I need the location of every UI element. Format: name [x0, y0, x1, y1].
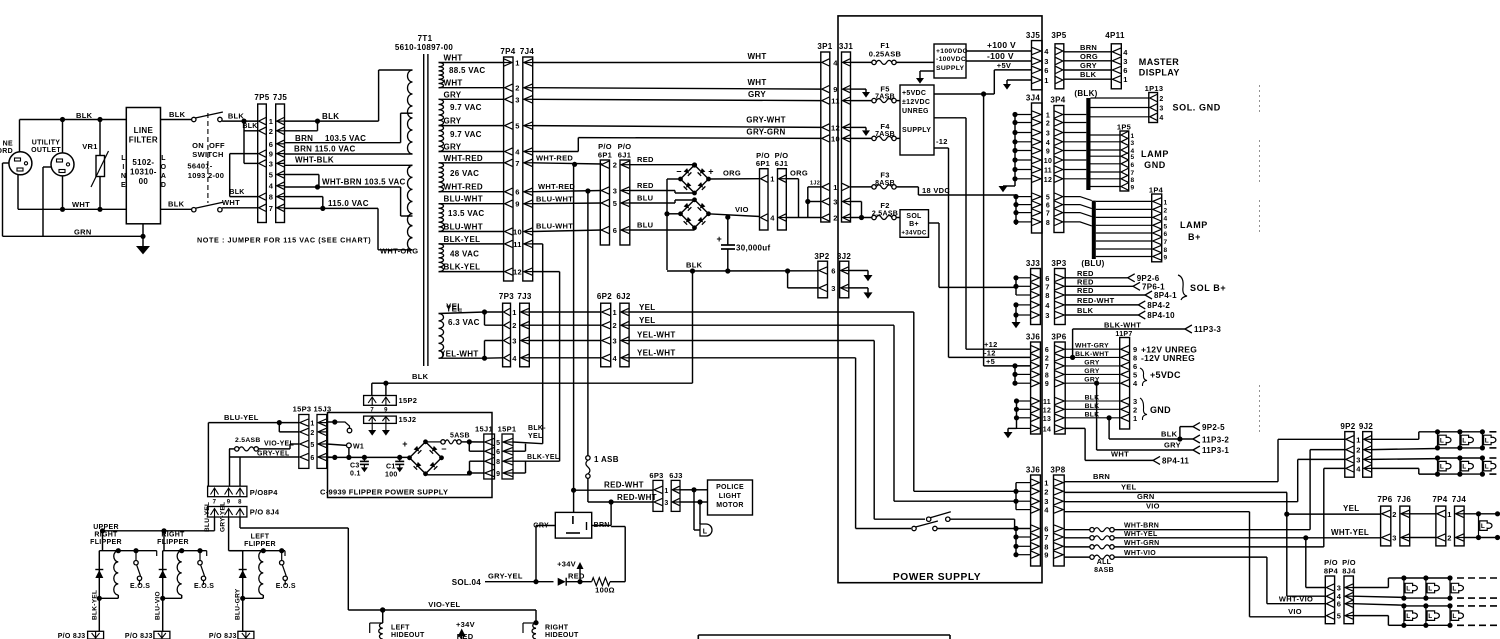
svg-text:GND: GND	[1150, 405, 1171, 415]
svg-text:3P2: 3P2	[814, 252, 829, 261]
svg-text:GRY-YEL: GRY-YEL	[488, 572, 523, 581]
svg-text:BLU: BLU	[637, 194, 653, 203]
svg-text:BLU-GRY: BLU-GRY	[235, 588, 242, 620]
svg-text:4: 4	[269, 182, 274, 191]
svg-text:N: N	[121, 173, 126, 180]
svg-text:5: 5	[310, 442, 314, 449]
svg-text:2: 2	[512, 321, 516, 330]
svg-text:BRN: BRN	[1080, 43, 1097, 52]
svg-text:BLK: BLK	[169, 110, 186, 119]
svg-text:OFF: OFF	[209, 141, 225, 150]
svg-text:7J5: 7J5	[273, 93, 287, 102]
svg-text:26 VAC: 26 VAC	[450, 169, 479, 178]
svg-text:3: 3	[1123, 57, 1127, 66]
svg-text:7: 7	[1046, 211, 1050, 218]
svg-text:UTILITY: UTILITY	[32, 140, 61, 147]
svg-text:VIO: VIO	[1288, 607, 1302, 616]
svg-text:12: 12	[1043, 407, 1051, 414]
svg-text:RED-WHT: RED-WHT	[617, 493, 657, 502]
svg-text:7: 7	[1164, 239, 1168, 246]
svg-text:7P6-1: 7P6-1	[1142, 282, 1165, 291]
svg-text:-12: -12	[936, 137, 948, 146]
svg-text:BLK: BLK	[229, 189, 244, 196]
svg-text:3: 3	[664, 500, 668, 507]
svg-text:WHT-RED: WHT-RED	[538, 182, 575, 191]
svg-text:BLU-YEL: BLU-YEL	[224, 413, 259, 422]
svg-text:F3: F3	[880, 171, 889, 180]
svg-text:B+: B+	[1188, 232, 1201, 242]
svg-text:WHT-BRN 103.5 VAC: WHT-BRN 103.5 VAC	[322, 178, 406, 187]
svg-text:1093 2-00: 1093 2-00	[188, 171, 224, 180]
svg-text:1: 1	[1044, 76, 1048, 85]
svg-text:6: 6	[496, 449, 500, 456]
svg-text:5: 5	[613, 199, 617, 208]
svg-text:1: 1	[1164, 199, 1168, 206]
svg-text:8: 8	[1046, 220, 1050, 227]
svg-text:6P2: 6P2	[597, 292, 612, 301]
svg-text:8P4-1: 8P4-1	[1154, 291, 1177, 300]
svg-text:13: 13	[1043, 416, 1051, 423]
svg-text:GRY: GRY	[1164, 441, 1181, 450]
svg-text:5: 5	[269, 171, 273, 180]
svg-text:7P6: 7P6	[1377, 495, 1392, 504]
svg-text:+5V: +5V	[997, 61, 1011, 70]
svg-text:BLK: BLK	[1077, 306, 1094, 315]
svg-text:BLK: BLK	[76, 111, 93, 120]
svg-text:15J2: 15J2	[399, 415, 417, 424]
svg-text:I: I	[122, 164, 124, 171]
svg-text:4: 4	[1044, 47, 1049, 56]
svg-text:L: L	[1462, 464, 1466, 471]
svg-text:3: 3	[1337, 584, 1341, 593]
svg-text:BLU-YEL: BLU-YEL	[204, 502, 211, 532]
svg-text:2: 2	[1392, 510, 1396, 519]
svg-text:2: 2	[1159, 96, 1163, 103]
svg-text:3J4: 3J4	[1026, 94, 1040, 103]
svg-text:LEFT: LEFT	[251, 534, 270, 541]
svg-text:SUPPLY: SUPPLY	[902, 127, 931, 134]
svg-text:GRY: GRY	[444, 117, 462, 126]
svg-text:L: L	[1406, 585, 1410, 592]
svg-text:FLIPPER: FLIPPER	[244, 541, 276, 548]
svg-text:RED: RED	[1077, 277, 1094, 286]
svg-text:WHT-RED: WHT-RED	[444, 183, 483, 192]
svg-text:7J4: 7J4	[520, 47, 534, 56]
svg-text:WHT: WHT	[444, 54, 463, 63]
svg-text:2: 2	[613, 321, 617, 330]
svg-text:56401-: 56401-	[187, 162, 212, 171]
svg-text:2: 2	[1356, 446, 1360, 455]
svg-text:7: 7	[1045, 364, 1049, 371]
svg-text:1: 1	[515, 59, 519, 68]
svg-text:ORD: ORD	[0, 148, 13, 155]
svg-text:C-9939 FLIPPER POWER SUPPLY: C-9939 FLIPPER POWER SUPPLY	[320, 488, 448, 497]
svg-text:ORG: ORG	[1080, 52, 1098, 61]
svg-text:6P1: 6P1	[756, 159, 770, 168]
svg-text:GRY: GRY	[444, 143, 462, 152]
svg-text:1: 1	[512, 308, 516, 317]
svg-text:10: 10	[1044, 158, 1052, 165]
svg-text:5: 5	[1131, 154, 1135, 161]
svg-text:BLK: BLK	[228, 112, 245, 121]
svg-text:4: 4	[1045, 301, 1050, 310]
svg-text:4: 4	[613, 354, 618, 363]
svg-text:BLU-WHT: BLU-WHT	[536, 222, 573, 231]
svg-text:WHT: WHT	[72, 200, 90, 209]
svg-text:MOTOR: MOTOR	[716, 502, 743, 509]
svg-text:P/O 8J4: P/O 8J4	[250, 508, 280, 517]
svg-text:WHT-GRN: WHT-GRN	[1124, 540, 1160, 547]
svg-text:LAMP: LAMP	[1141, 149, 1169, 159]
svg-text:4P11: 4P11	[1105, 31, 1125, 40]
svg-text:WHT: WHT	[747, 52, 766, 61]
svg-text:3P6: 3P6	[1051, 333, 1066, 342]
svg-text:8P4-2: 8P4-2	[1147, 301, 1170, 310]
svg-text:3J6: 3J6	[1026, 333, 1040, 342]
svg-text:WHT-ORG: WHT-ORG	[380, 247, 418, 256]
svg-text:GRY-YEL: GRY-YEL	[220, 502, 227, 532]
svg-text:48 VAC: 48 VAC	[450, 250, 479, 259]
svg-text:100: 100	[385, 472, 398, 479]
svg-text:GRY-WHT: GRY-WHT	[746, 116, 786, 125]
svg-text:WHT: WHT	[222, 198, 240, 207]
svg-text:LIGHT: LIGHT	[719, 493, 742, 500]
svg-text:1J2: 1J2	[810, 181, 820, 187]
svg-text:LEFT: LEFT	[391, 625, 410, 632]
svg-text:2: 2	[1045, 355, 1049, 362]
svg-text:+: +	[716, 234, 722, 244]
svg-text:8: 8	[269, 193, 273, 202]
svg-text:4: 4	[512, 354, 517, 363]
svg-text:13.5 VAC: 13.5 VAC	[448, 209, 485, 218]
svg-text:BLU: BLU	[637, 221, 653, 230]
svg-text:+34V: +34V	[557, 560, 576, 569]
svg-text:4: 4	[1044, 506, 1049, 515]
svg-text:SOL B+: SOL B+	[1190, 283, 1226, 293]
svg-text:BLK: BLK	[322, 112, 339, 121]
svg-text:BLK: BLK	[412, 372, 429, 381]
svg-text:3J3: 3J3	[1026, 259, 1040, 268]
svg-text:FLIPPER: FLIPPER	[157, 539, 189, 546]
svg-text:D: D	[161, 182, 166, 189]
svg-text:3: 3	[515, 95, 519, 104]
svg-text:L: L	[1440, 437, 1444, 444]
svg-text:VIO: VIO	[735, 205, 749, 214]
svg-text:L: L	[1485, 437, 1489, 444]
svg-text:6: 6	[831, 267, 835, 276]
svg-text:YEL: YEL	[446, 303, 462, 312]
svg-text:8P4-10: 8P4-10	[1147, 311, 1175, 320]
svg-text:BLK-YEL: BLK-YEL	[444, 263, 481, 272]
svg-text:RED: RED	[568, 572, 585, 581]
svg-text:RED: RED	[457, 632, 474, 639]
svg-text:5102-: 5102-	[132, 158, 154, 167]
svg-text:ORG: ORG	[790, 169, 808, 178]
svg-text:3: 3	[269, 159, 273, 168]
svg-text:9: 9	[1046, 149, 1050, 156]
svg-text:11P3-1: 11P3-1	[1202, 446, 1229, 455]
svg-text:1P4: 1P4	[1149, 186, 1164, 195]
svg-text:O: O	[161, 164, 167, 171]
svg-text:4: 4	[1123, 48, 1128, 57]
svg-text:9J2: 9J2	[1359, 422, 1373, 431]
svg-text:7T1: 7T1	[418, 34, 433, 43]
svg-text:9: 9	[1044, 551, 1048, 560]
svg-text:7: 7	[213, 500, 217, 506]
svg-text:VIO: VIO	[1146, 502, 1160, 511]
svg-text:5610-10897-00: 5610-10897-00	[395, 43, 453, 52]
svg-text:BLU-WHT: BLU-WHT	[536, 195, 573, 204]
svg-text:BLK-WHT: BLK-WHT	[1075, 351, 1109, 358]
svg-text:9: 9	[269, 150, 273, 159]
svg-text:6: 6	[310, 455, 314, 462]
svg-text:6: 6	[1164, 231, 1168, 238]
svg-text:6: 6	[1123, 66, 1127, 75]
svg-text:OUTLET: OUTLET	[31, 147, 61, 154]
svg-text:9: 9	[1131, 185, 1135, 192]
svg-text:2: 2	[310, 430, 314, 437]
svg-text:BLK: BLK	[168, 200, 185, 209]
svg-text:9: 9	[1045, 381, 1049, 388]
svg-text:1: 1	[770, 175, 774, 184]
svg-text:3: 3	[1045, 311, 1049, 320]
svg-text:11: 11	[831, 97, 840, 106]
svg-text:1 ASB: 1 ASB	[594, 455, 619, 464]
svg-text:4: 4	[833, 58, 838, 67]
svg-text:2: 2	[515, 84, 519, 93]
svg-text:3: 3	[1046, 131, 1050, 138]
svg-text:E: E	[121, 182, 126, 189]
svg-text:UNREG: UNREG	[902, 108, 929, 115]
svg-text:2: 2	[613, 161, 617, 170]
svg-text:RED: RED	[1077, 286, 1094, 295]
svg-text:1: 1	[833, 183, 837, 192]
svg-text:15J3: 15J3	[314, 405, 332, 414]
svg-text:LINE: LINE	[134, 126, 154, 135]
svg-text:YEL: YEL	[639, 316, 655, 325]
svg-text:1: 1	[1046, 113, 1050, 120]
svg-text:F2: F2	[880, 201, 889, 210]
svg-text:L: L	[1481, 523, 1485, 530]
svg-text:30,000uf: 30,000uf	[736, 244, 770, 253]
svg-text:5: 5	[1164, 223, 1168, 230]
svg-text:00: 00	[139, 177, 149, 186]
svg-text:BLK-YEL: BLK-YEL	[444, 235, 481, 244]
svg-text:6J2: 6J2	[616, 292, 630, 301]
svg-text:1: 1	[1133, 414, 1137, 423]
svg-text:6: 6	[1337, 600, 1341, 609]
svg-text:GRN: GRN	[74, 228, 92, 237]
svg-text:BLU-WHT: BLU-WHT	[444, 223, 483, 232]
svg-text:4: 4	[515, 148, 520, 157]
svg-text:3: 3	[831, 284, 835, 293]
svg-text:6P1: 6P1	[598, 151, 612, 160]
svg-text:1P13: 1P13	[1145, 84, 1164, 93]
svg-text:DISPLAY: DISPLAY	[1139, 68, 1180, 78]
svg-text:L: L	[1485, 464, 1489, 471]
svg-text:+5VDC: +5VDC	[902, 90, 926, 97]
svg-text:2: 2	[1447, 534, 1451, 543]
svg-text:BLU-VIO: BLU-VIO	[155, 591, 162, 620]
svg-text:0.1: 0.1	[350, 471, 361, 478]
svg-text:L: L	[1462, 437, 1466, 444]
svg-text:11P3-2: 11P3-2	[1202, 436, 1229, 445]
svg-text:BLK-WHT: BLK-WHT	[1104, 321, 1141, 330]
svg-text:ON: ON	[192, 141, 204, 150]
svg-text:P/O8P4: P/O8P4	[250, 488, 279, 497]
svg-text:GRY: GRY	[1080, 61, 1097, 70]
svg-text:7J6: 7J6	[1397, 495, 1411, 504]
svg-text:NOTE : JUMPER FOR 115 VAC (SEE: NOTE : JUMPER FOR 115 VAC (SEE CHART)	[197, 236, 371, 245]
svg-text:3J2: 3J2	[837, 252, 851, 261]
svg-text:±12VDC: ±12VDC	[902, 99, 930, 106]
svg-text:8: 8	[1131, 177, 1135, 184]
svg-text:14: 14	[1043, 426, 1051, 433]
svg-text:WHT-VIO: WHT-VIO	[1279, 595, 1313, 604]
svg-text:6: 6	[1045, 347, 1049, 354]
svg-text:8: 8	[1045, 372, 1049, 379]
svg-text:10: 10	[831, 134, 840, 143]
svg-text:8P4: 8P4	[1324, 567, 1339, 576]
svg-text:+5VDC: +5VDC	[1150, 370, 1181, 380]
svg-text:L: L	[1452, 613, 1456, 620]
svg-text:0.25ASB: 0.25ASB	[869, 50, 902, 59]
svg-text:88.5 VAC: 88.5 VAC	[449, 66, 486, 75]
svg-text:+34VDC: +34VDC	[901, 230, 927, 237]
svg-text:C1: C1	[386, 464, 396, 471]
svg-text:1: 1	[1447, 510, 1451, 519]
svg-text:9: 9	[833, 85, 837, 94]
svg-text:WHT-BRN: WHT-BRN	[1124, 523, 1159, 530]
svg-text:+100 V: +100 V	[987, 40, 1016, 50]
svg-text:3P4: 3P4	[1050, 96, 1065, 105]
svg-text:GRY-GRN: GRY-GRN	[746, 128, 785, 137]
svg-text:6: 6	[613, 226, 617, 235]
svg-text:2: 2	[1044, 487, 1048, 496]
svg-text:RED: RED	[637, 181, 654, 190]
svg-text:L: L	[703, 529, 708, 536]
svg-text:BLU-WHT: BLU-WHT	[444, 195, 483, 204]
svg-text:BRN 115.0 VAC: BRN 115.0 VAC	[294, 145, 356, 154]
svg-text:MASTER: MASTER	[1139, 57, 1180, 67]
svg-text:6P3: 6P3	[649, 471, 663, 480]
svg-text:BLK: BLK	[1080, 70, 1097, 79]
svg-text:W1: W1	[353, 444, 364, 451]
svg-text:WHT-RED: WHT-RED	[444, 154, 483, 163]
svg-text:8: 8	[1045, 291, 1049, 300]
svg-text:1: 1	[1044, 479, 1048, 488]
svg-text:E.O.S: E.O.S	[130, 583, 150, 590]
svg-text:5: 5	[1046, 195, 1050, 202]
svg-text:P/O 8J3: P/O 8J3	[58, 633, 86, 639]
svg-text:RIGHT: RIGHT	[545, 625, 569, 632]
svg-text:L: L	[1406, 613, 1410, 620]
svg-text:BLK: BLK	[686, 261, 703, 270]
svg-text:B+: B+	[909, 221, 919, 228]
svg-text:FLIPPER: FLIPPER	[90, 539, 122, 546]
svg-text:WHT: WHT	[1111, 450, 1129, 459]
svg-text:15P3: 15P3	[293, 405, 312, 414]
svg-text:15P2: 15P2	[399, 396, 418, 405]
svg-text:F5: F5	[880, 85, 889, 94]
svg-text:YEL-WHT: YEL-WHT	[440, 350, 479, 359]
svg-text:RIGHT: RIGHT	[94, 532, 118, 539]
svg-text:9P2: 9P2	[1340, 422, 1355, 431]
svg-text:YEL-WHT: YEL-WHT	[637, 331, 676, 340]
svg-text:100Ω: 100Ω	[595, 586, 615, 595]
svg-text:6: 6	[1131, 162, 1135, 169]
svg-text:WHT: WHT	[747, 78, 766, 87]
svg-text:7: 7	[1044, 533, 1048, 542]
svg-text:1P5: 1P5	[1117, 123, 1131, 132]
svg-text:SOL. GND: SOL. GND	[1173, 103, 1221, 113]
svg-text:9P2-5: 9P2-5	[1202, 423, 1225, 432]
svg-text:7P4: 7P4	[1432, 495, 1447, 504]
svg-text:UPPER: UPPER	[93, 524, 119, 531]
svg-text:NE: NE	[3, 141, 13, 148]
svg-text:L: L	[1440, 464, 1444, 471]
svg-text:9: 9	[227, 500, 231, 506]
svg-text:YEL: YEL	[1343, 504, 1359, 513]
svg-text:3J1: 3J1	[839, 42, 853, 51]
svg-text:BRN: BRN	[1093, 472, 1110, 481]
svg-text:12: 12	[513, 268, 522, 277]
svg-text:7P5: 7P5	[254, 93, 269, 102]
svg-text:6: 6	[1044, 66, 1048, 75]
svg-text:POLICE: POLICE	[716, 484, 744, 491]
svg-text:3: 3	[1356, 455, 1360, 464]
svg-text:9.7 VAC: 9.7 VAC	[450, 130, 482, 139]
svg-text:8J4: 8J4	[1342, 567, 1356, 576]
svg-text:5: 5	[1133, 370, 1137, 379]
svg-text:P/O 8J3: P/O 8J3	[125, 633, 153, 639]
svg-text:7P4: 7P4	[500, 47, 515, 56]
svg-text:11: 11	[513, 240, 522, 249]
svg-text:4: 4	[1164, 215, 1168, 222]
svg-text:1: 1	[269, 117, 273, 126]
svg-text:8: 8	[238, 500, 242, 506]
svg-text:3: 3	[1044, 57, 1048, 66]
svg-text:6: 6	[1046, 203, 1050, 210]
svg-text:RED-WHT: RED-WHT	[1077, 296, 1115, 305]
svg-text:4: 4	[1133, 379, 1138, 388]
svg-text:7: 7	[269, 204, 273, 213]
svg-text:YEL: YEL	[528, 433, 543, 440]
svg-text:BLK-YEL: BLK-YEL	[91, 590, 98, 620]
svg-text:11: 11	[1044, 168, 1052, 175]
svg-text:3P5: 3P5	[1051, 31, 1066, 40]
svg-text:+34V: +34V	[456, 620, 475, 629]
svg-text:YEL-WHT: YEL-WHT	[637, 349, 676, 358]
svg-text:1: 1	[664, 488, 668, 495]
svg-text:3J6: 3J6	[1026, 466, 1040, 475]
svg-text:5: 5	[1337, 612, 1341, 621]
svg-text:3: 3	[613, 337, 617, 346]
svg-text:5: 5	[496, 440, 500, 447]
svg-text:4: 4	[1159, 115, 1163, 122]
svg-text:C3: C3	[350, 463, 360, 470]
svg-text:8P4-11: 8P4-11	[1162, 457, 1189, 466]
svg-text:SOL.04: SOL.04	[452, 578, 482, 587]
svg-text:WHT-YEL: WHT-YEL	[1331, 528, 1369, 537]
svg-text:6J1: 6J1	[618, 151, 631, 160]
svg-text:−: −	[441, 444, 447, 454]
svg-text:+: +	[708, 167, 714, 177]
svg-text:12: 12	[1044, 177, 1052, 184]
svg-text:2: 2	[1164, 207, 1168, 214]
svg-text:5: 5	[515, 122, 519, 131]
svg-text:103.5 VAC: 103.5 VAC	[325, 134, 366, 143]
